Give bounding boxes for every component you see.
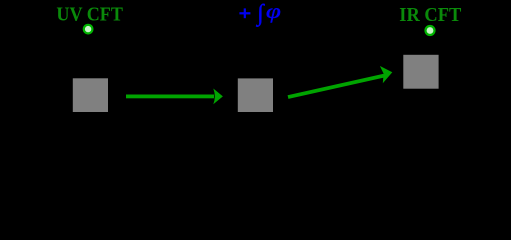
svg-text:IR CFT: IR CFT	[399, 4, 462, 26]
arrow RG flow diagonal	[288, 66, 393, 99]
node IR fixed point	[426, 26, 435, 35]
svg-text:UV CFT: UV CFT	[56, 4, 123, 26]
node UV fixed point	[84, 25, 93, 34]
label deformation plus sign	[239, 8, 250, 18]
arrow RG flow horizontal	[126, 89, 223, 105]
box UV lattice	[73, 78, 108, 112]
box IR lattice	[403, 55, 438, 89]
box middle lattice	[238, 78, 273, 112]
svg-text:φ: φ	[266, 0, 281, 23]
